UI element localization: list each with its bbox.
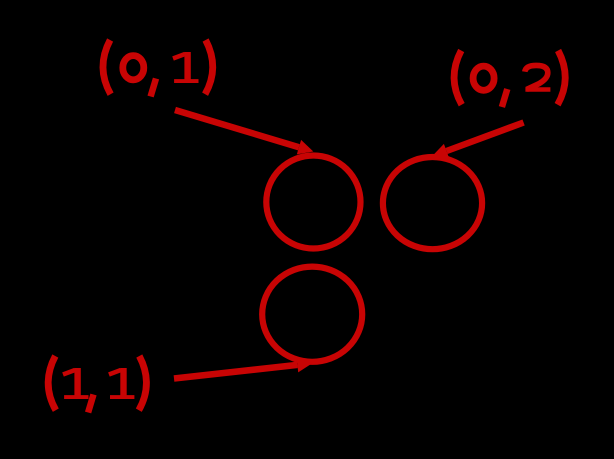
arrow 1 head xyxy=(297,140,314,155)
arrow 3 shaft xyxy=(174,365,297,379)
arrow 2 shaft xyxy=(447,123,524,152)
node circle (1,1) target xyxy=(262,267,362,362)
node circle (0,1) target xyxy=(266,156,360,249)
arrow from label (1,1) to circle 3 xyxy=(174,358,312,379)
arrow from label (0,2) to circle 2 xyxy=(432,123,523,159)
arrow from label (0,1) to circle 1 xyxy=(175,110,313,154)
text label (1,1) xyxy=(48,356,146,413)
text label (0,1) xyxy=(103,40,213,97)
arrow 2 head xyxy=(432,144,449,158)
arrow 1 shaft xyxy=(175,110,299,147)
text label (0,2) xyxy=(454,51,565,108)
arrow 3 head xyxy=(297,358,313,373)
node circle (0,2) target xyxy=(383,157,482,249)
